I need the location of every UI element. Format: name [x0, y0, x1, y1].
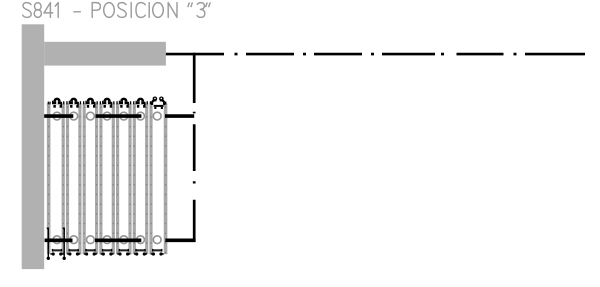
bottom guide shoe unit 6 — [134, 249, 147, 256]
panel edge profiles at boundary 3 — [78, 104, 85, 255]
top track ticks at boundary 2 — [64, 101, 67, 104]
jamb bracket right — [62, 228, 66, 260]
title text "S841 - POSICION 3" — [23, 3, 210, 18]
bottom hinge roller unit 3 — [87, 236, 95, 244]
top pivot cap unit 3 — [85, 98, 95, 108]
bottom hinge roller unit 6 — [137, 236, 145, 244]
bottom hinge roller unit 4 — [103, 236, 111, 244]
bottom guide shoe unit 5 — [117, 249, 130, 256]
vertical dash-dot line at stack end — [193, 53, 196, 242]
top track ticks at boundary 7 — [147, 101, 150, 104]
horizontal dash-dot centerline — [166, 53, 585, 56]
top hinge roller unit 7 — [153, 112, 161, 120]
bottom guide shoe unit 1 — [51, 249, 64, 256]
top hinge roller unit 4 — [103, 112, 111, 120]
top pivot cap unit 1 — [52, 98, 62, 108]
panel edge profiles at boundary 1 — [47, 104, 51, 255]
top track ticks at boundary 8 — [165, 102, 167, 105]
top pivot cap unit 5 — [119, 98, 129, 108]
end trolley (double roller) unit 7 — [152, 97, 164, 110]
panel edge profiles at boundary 8 — [164, 104, 168, 255]
jamb bracket left — [46, 228, 50, 260]
bottom hinge roller unit 7 — [153, 236, 161, 244]
lintel / header (horizontal gray bar) — [44, 42, 166, 66]
top hinge roller unit 1 — [53, 112, 61, 120]
top hinge roller unit 5 — [120, 112, 128, 120]
bottom guide shoe unit 3 — [84, 249, 97, 256]
top pivot cap unit 2 — [69, 98, 79, 108]
top hinge roller unit 3 — [87, 112, 95, 120]
bottom leaf line segments — [45, 239, 196, 243]
bottom guide shoe unit 7 — [151, 249, 164, 256]
panel edge profiles at boundary 4 — [95, 104, 103, 255]
bottom hinge roller unit 1 — [53, 236, 61, 244]
bottom guide shoe unit 4 — [101, 249, 114, 256]
bottom hinge roller unit 5 — [120, 236, 128, 244]
top track ticks at boundary 1 — [48, 102, 50, 105]
top hinge roller unit 2 — [70, 112, 78, 120]
panel edge profiles at boundary 2 — [62, 104, 70, 255]
top track ticks at boundary 6 — [131, 101, 134, 104]
top hinge roller unit 6 — [137, 112, 145, 120]
wall (vertical gray bar) — [22, 24, 45, 269]
bottom hinge roller unit 2 — [70, 236, 78, 244]
top track ticks at boundary 4 — [97, 101, 100, 104]
top leaf line segments — [44, 114, 194, 118]
top pivot cap unit 6 — [136, 98, 146, 108]
panel edge profiles at boundary 7 — [145, 104, 152, 255]
panel edge profiles at boundary 5 — [112, 104, 120, 255]
panel edge profiles at boundary 6 — [128, 104, 136, 255]
bottom guide shoe unit 2 — [67, 249, 80, 256]
top track ticks at boundary 5 — [114, 101, 117, 104]
top pivot cap unit 4 — [102, 98, 112, 108]
top track ticks at boundary 3 — [80, 101, 83, 104]
